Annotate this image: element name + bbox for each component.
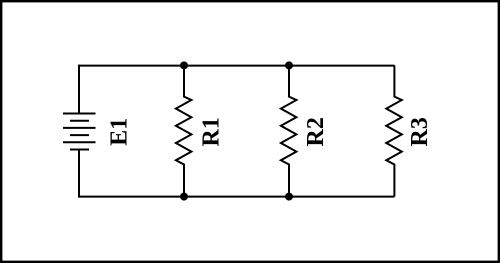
svg-text:R3: R3 xyxy=(407,117,433,146)
svg-text:R2: R2 xyxy=(303,117,329,146)
wire: battery top lead xyxy=(78,65,80,114)
wire: top bus from battery to R3 xyxy=(79,65,394,67)
junction dot: R1 bottom xyxy=(180,193,188,201)
svg-text:E1: E1 xyxy=(106,118,132,146)
resistor R1 xyxy=(176,65,192,196)
wire: battery bottom lead xyxy=(78,150,80,198)
wire: bottom bus from battery to R3 xyxy=(79,196,394,198)
resistor R2 xyxy=(281,65,297,196)
junction dot: R2 top xyxy=(285,61,293,69)
junction dot: R1 top xyxy=(180,61,188,69)
junction dot: R2 bottom xyxy=(285,193,293,201)
resistor R3 xyxy=(386,65,402,196)
svg-text:R1: R1 xyxy=(199,117,225,146)
battery E1 xyxy=(63,114,96,150)
